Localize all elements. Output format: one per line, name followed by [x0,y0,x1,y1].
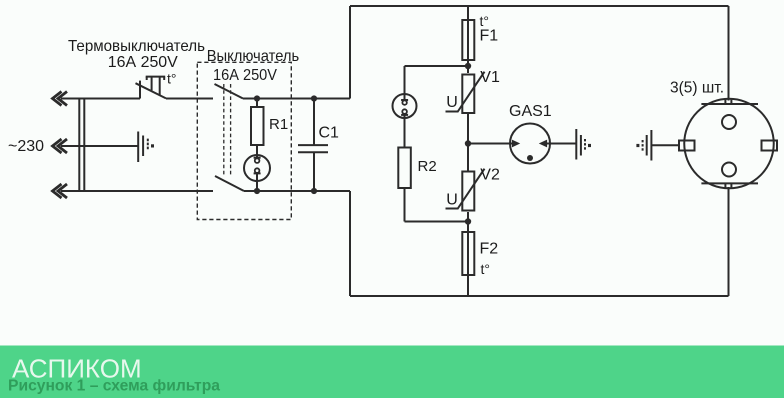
wire main column top segment [467,6,469,73]
svg-text:C1: C1 [319,125,340,142]
mechanical link dashed lines [223,84,225,176]
varistor V2 [446,169,485,211]
svg-text:GAS1: GAS1 [509,103,552,120]
node junction R1 top [254,95,260,101]
chevron arrow input PE [53,184,68,198]
wire earth to socket clip [651,144,679,146]
wire left riser from top phase wire up to top bus [349,6,351,99]
svg-text:16А 250V: 16А 250V [108,54,178,71]
wire HL1 bottom lead [256,181,258,191]
wire HL2 to R2 [404,118,406,148]
wire R2 bottom lead [404,188,406,222]
wire R2 branch bottom [405,221,469,223]
svg-text:Термовыключатель: Термовыключатель [68,38,205,55]
socket XS1 bottom pin hole [722,163,736,177]
green footer band [0,346,784,398]
wire neutral N from input [61,145,138,147]
svg-text:V1: V1 [480,69,500,86]
node junction R2 branch bottom [465,218,471,224]
wire bottom bus [350,295,729,297]
svg-text:~230: ~230 [8,138,44,155]
fuse F1 [462,20,474,60]
wire between V1 and V2 [467,113,469,172]
socket XS1 top pin hole [722,115,736,129]
node junction below F1 [465,63,471,69]
fuse F2 [462,232,474,275]
switch S1.1 blade [215,84,244,99]
arrester GAS1 [510,124,550,164]
svg-text:t°: t° [481,261,491,277]
socket XS1 left earth clip [679,141,695,151]
svg-text:V2: V2 [480,167,500,184]
node junction C1 top [311,95,317,101]
svg-text:U: U [446,94,458,111]
svg-text:Рисунок 1 – схема фильтра: Рисунок 1 – схема фильтра [8,378,220,395]
node junction GAS branch [465,140,471,146]
wire lamp HL2 top lead [404,66,406,94]
dashed enclosure box (Выключатель) [197,62,291,219]
wire PE bottom from input to switch [61,190,213,192]
node junction C1 bottom [311,188,317,194]
lamp HL2 (neon) [393,94,417,118]
resistor R1 [251,107,264,145]
ground symbol socket earth [636,130,651,161]
cable marker double vertical lines [78,98,80,193]
wire V2 to F2 [467,212,469,296]
svg-text:t°: t° [167,71,177,87]
wire socket bottom feed [728,187,730,296]
wire socket feed down from top bus [728,6,730,101]
ground symbol left (N earth) [138,132,154,163]
svg-text:U: U [446,192,458,209]
svg-text:Выключатель: Выключатель [207,48,300,65]
wire thermal switch to box switch [166,98,213,100]
wire S1.2 to corner [244,190,350,192]
wire junction to GAS1 [468,143,511,145]
wire R2 branch top [405,65,469,67]
thermal switch SF1 contact post [139,81,141,99]
socket XS1 right earth clip [762,141,778,151]
svg-text:F1: F1 [480,27,499,44]
socket XS1 body [684,99,774,189]
wire R1 top lead [256,99,258,108]
svg-text:3(5) шт.: 3(5) шт. [670,80,724,97]
thermal switch SF1 blade [136,83,167,98]
chevron arrow input L [53,92,68,106]
wire top bus [350,5,729,7]
wire left riser from bottom wire down to bottom bus [349,191,351,296]
varistor V1 [446,72,485,113]
svg-text:R2: R2 [418,158,437,175]
node junction HL1 bottom [254,188,260,194]
ground symbol GAS1 earth [576,129,591,160]
wire phase L from input to thermal switch [61,98,140,100]
switch S1.2 blade [215,176,244,191]
capacitor C1 [298,99,328,192]
svg-text:16А 250V: 16А 250V [213,67,277,84]
svg-text:F2: F2 [480,241,499,258]
chevron arrow input N [53,139,68,153]
wire S1.1 to corner [243,98,350,100]
wire GAS1 to earth [550,143,576,145]
wire R1 to lamp HL1 [256,145,258,155]
svg-text:R1: R1 [269,116,288,133]
lamp HL1 (neon) [244,155,270,181]
thermal switch SF1 thermal element [146,77,166,96]
resistor R2 [398,148,411,189]
